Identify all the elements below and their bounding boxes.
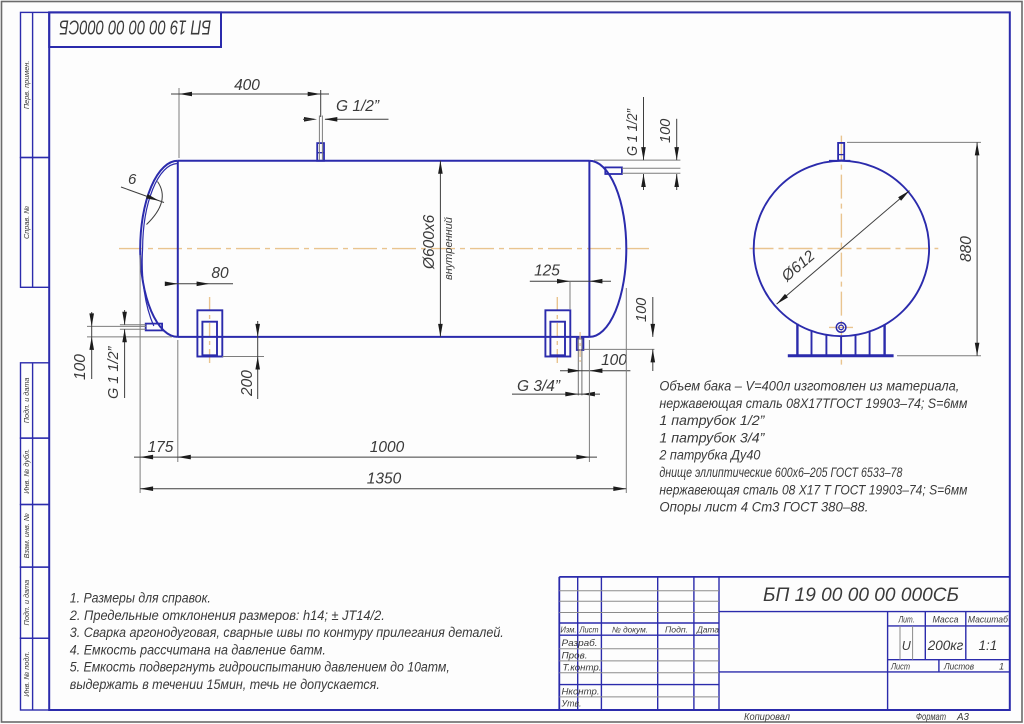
dimension 400	[178, 88, 180, 158]
svg-text:Лист: Лист	[579, 626, 599, 635]
left head-to-shell seam	[177, 161, 179, 337]
end view support legs base line	[788, 354, 894, 357]
svg-text:Масштаб: Масштаб	[968, 615, 1009, 625]
shell top extension line (right)	[594, 159, 680, 161]
svg-text:1. Размеры для справок.: 1. Размеры для справок.	[70, 591, 211, 607]
dimension 880	[847, 141, 981, 143]
top nozzle G 1/2" flange line	[317, 152, 324, 154]
dimension 100 (left nozzle height)	[87, 325, 146, 327]
svg-text:Инв. № подл.: Инв. № подл.	[22, 651, 31, 696]
bottom right nozzle G 3/4" body	[577, 339, 584, 351]
svg-text:Пров.: Пров.	[562, 650, 588, 660]
left elliptical head inner wall line	[142, 164, 177, 327]
dimension G 1 1/2" (right top nozzle)	[643, 97, 645, 160]
svg-text:100: 100	[658, 119, 674, 143]
svg-text:№ докум.: № докум.	[612, 626, 648, 635]
box Подп. и дата (lower)	[21, 567, 50, 638]
svg-text:Нконтр.: Нконтр.	[562, 687, 600, 697]
svg-text:Изм.: Изм.	[561, 626, 577, 635]
bottom right nozzle lower extension line	[583, 348, 654, 350]
box Взам. инв. №	[21, 505, 50, 568]
svg-text:G 3/4”: G 3/4”	[517, 378, 561, 395]
svg-text:Т.контр.: Т.контр.	[563, 663, 602, 673]
svg-text:Лит.: Лит.	[898, 615, 915, 625]
svg-text:Формат: Формат	[916, 712, 946, 723]
svg-text:Масса: Масса	[933, 615, 959, 625]
right elliptical head contour	[589, 161, 626, 337]
end view horizontal centerline	[750, 248, 939, 250]
svg-text:Лист: Лист	[890, 662, 910, 672]
top-left designation stamp box	[49, 12, 221, 47]
label G 1/2"	[325, 118, 389, 120]
svg-text:БП 19 00 00 00 000СБ: БП 19 00 00 00 000СБ	[59, 16, 211, 38]
svg-text:Ø600х6: Ø600х6	[421, 214, 438, 270]
extension line left seam down	[177, 340, 179, 462]
svg-text:200кг: 200кг	[927, 638, 964, 653]
left margin column boxes	[21, 12, 50, 710]
svg-text:G 1 1/2”: G 1 1/2”	[625, 108, 641, 156]
tank shell top line	[178, 160, 590, 162]
dimension 80	[165, 283, 233, 285]
svg-text:1 патрубок 1/2”: 1 патрубок 1/2”	[659, 413, 765, 429]
right head-to-shell seam	[588, 161, 590, 337]
box Подп. и дата (upper)	[21, 363, 50, 438]
bottom margin labels	[744, 712, 970, 723]
dimension 200	[222, 356, 264, 358]
svg-text:80: 80	[211, 265, 229, 282]
svg-text:днище эллиптические 600х6–205: днище эллиптические 600х6–205 ГОСТ 6533–…	[659, 465, 902, 481]
support legs	[796, 324, 798, 356]
svg-text:нержавеющая сталь 08Х17ТГОСТ 1: нержавеющая сталь 08Х17ТГОСТ 19903–74; S…	[659, 396, 967, 412]
svg-text:1: 1	[999, 662, 1004, 672]
svg-text:выдержать в течении 15мин, теч: выдержать в течении 15мин, течь не допус…	[70, 677, 380, 693]
box Инв. № подл.	[21, 638, 50, 710]
svg-text:3. Сварка аргонодуговая, сварн: 3. Сварка аргонодуговая, сварные швы по …	[70, 625, 504, 641]
tank shell bottom line	[178, 336, 590, 338]
tank end circle	[754, 161, 929, 336]
svg-text:400: 400	[234, 77, 260, 94]
litera cell thin verticals	[899, 626, 901, 660]
svg-text:1350: 1350	[367, 471, 402, 488]
svg-text:Дата: Дата	[696, 626, 719, 635]
litera header labels	[898, 615, 1009, 625]
label G 3/4"	[512, 393, 600, 395]
left elliptical head outer contour	[140, 161, 178, 337]
bottom right nozzle centerline	[579, 332, 581, 362]
svg-text:внутренний: внутренний	[443, 217, 455, 280]
svg-text:6: 6	[128, 171, 137, 188]
svg-text:Объем бака – V=400л изготовле: Объем бака – V=400л изготовлен из матери…	[659, 379, 959, 395]
left support centerline	[209, 297, 211, 364]
dimension Ф612 diagonal	[777, 191, 910, 305]
top nozzle centerline extension up to 400-dim	[320, 90, 322, 117]
svg-text:Подп. и дата: Подп. и дата	[22, 580, 31, 626]
box Инв. № дубл.	[21, 438, 50, 504]
svg-text:Подп. и дата: Подп. и дата	[22, 378, 31, 424]
svg-text:125: 125	[534, 263, 560, 280]
svg-text:200: 200	[239, 370, 256, 397]
svg-text:G 1 1/2”: G 1 1/2”	[106, 345, 122, 399]
svg-text:880: 880	[958, 236, 975, 262]
left support leg	[202, 322, 217, 356]
left nozzle G 1 1/2" on head	[146, 324, 162, 331]
title block blue verticals	[577, 577, 579, 710]
svg-text:2 патрубка Ду40: 2 патрубка Ду40	[659, 448, 761, 464]
svg-text:Перв. примен.: Перв. примен.	[22, 61, 31, 110]
title block thin gray horizontals	[559, 590, 719, 592]
left nozzle extension lines	[120, 324, 146, 326]
svg-text:100: 100	[634, 298, 650, 322]
top nozzle bore extension lines	[318, 116, 320, 161]
dimension 100 (bottom nozzle vertical)	[652, 297, 654, 337]
svg-text:Справ. №: Справ. №	[22, 206, 31, 239]
dimension 100 (bottom nozzle horizontal)	[560, 370, 630, 372]
svg-text:Утв.: Утв.	[561, 699, 582, 709]
svg-text:1 патрубок 3/4”: 1 патрубок 3/4”	[659, 430, 765, 446]
box Перв. примен.	[21, 12, 50, 157]
svg-text:Опоры лист 4 Ст3 ГОСТ 380–88.: Опоры лист 4 Ст3 ГОСТ 380–88.	[659, 500, 868, 516]
svg-text:1000: 1000	[370, 439, 405, 456]
drain boss double circle	[836, 323, 846, 333]
right support leg	[550, 322, 565, 356]
svg-text:Разраб.: Разраб.	[562, 638, 598, 648]
right support outer plate	[545, 310, 570, 356]
svg-text:Копировал: Копировал	[744, 712, 790, 723]
end view top nozzle	[838, 143, 844, 161]
svg-text:А3: А3	[956, 712, 970, 723]
svg-text:4. Емкость рассчитана на давле: 4. Емкость рассчитана на давление 6атм.	[70, 642, 326, 658]
title block row labels	[561, 638, 602, 709]
bottom right nozzle pipe lines	[577, 338, 579, 395]
svg-text:G 1/2”: G 1/2”	[336, 98, 380, 115]
top nozzle G 1/2" body	[317, 143, 324, 161]
drain centerline tick	[829, 326, 853, 328]
title block outer left and top	[558, 577, 560, 710]
extension line right head extreme	[625, 288, 627, 493]
svg-text:Подп.: Подп.	[665, 626, 688, 635]
svg-text:Взам. инв. №: Взам. инв. №	[22, 513, 31, 558]
left margin labels	[22, 61, 31, 697]
right support centerline	[556, 297, 558, 364]
svg-text:100: 100	[601, 352, 627, 369]
svg-text:1:1: 1:1	[979, 638, 998, 653]
svg-text:175: 175	[148, 439, 174, 456]
right top nozzle G 1 1/2" body	[605, 167, 622, 174]
svg-text:2. Предельные отклонения разме: 2. Предельные отклонения размеров: h14; …	[69, 608, 385, 624]
dimension 175 and 1000 shared line	[134, 456, 597, 458]
svg-text:Листов: Листов	[943, 662, 974, 672]
title block blue horizontals	[559, 622, 719, 624]
svg-text:нержавеющая сталь 08 Х17 Т ГОС: нержавеющая сталь 08 Х17 Т ГОСТ 19903–74…	[659, 482, 967, 498]
svg-text:U: U	[902, 639, 912, 653]
title block small header labels	[561, 626, 720, 635]
svg-text:БП 19 00 00 00 000СБ: БП 19 00 00 00 000СБ	[763, 584, 959, 606]
dimension 1350	[140, 488, 626, 490]
left support outer plate	[197, 310, 222, 356]
box Справ. №	[21, 158, 50, 288]
label G 1 1/2" (left nozzle)	[124, 310, 126, 325]
svg-text:Инв. № дубл.: Инв. № дубл.	[22, 449, 31, 494]
right top nozzle extension lines	[622, 167, 681, 169]
extension line left head extreme	[139, 255, 141, 493]
dimension 100 (right top nozzle)	[676, 119, 678, 160]
weld zone arc	[147, 182, 163, 225]
end view vertical centerline	[840, 136, 842, 366]
dimension Ф600x6 internal	[439, 161, 441, 337]
extension line right seam down	[588, 340, 590, 462]
dimension 125	[530, 280, 611, 282]
weld leader line	[121, 187, 164, 203]
svg-text:5. Емкость подвергнуть гидроис: 5. Емкость подвергнуть гидроиспытанию да…	[70, 660, 450, 676]
svg-text:100: 100	[72, 354, 89, 380]
sheet row labels	[890, 662, 1004, 672]
main horizontal centerline (axis)	[119, 248, 649, 250]
